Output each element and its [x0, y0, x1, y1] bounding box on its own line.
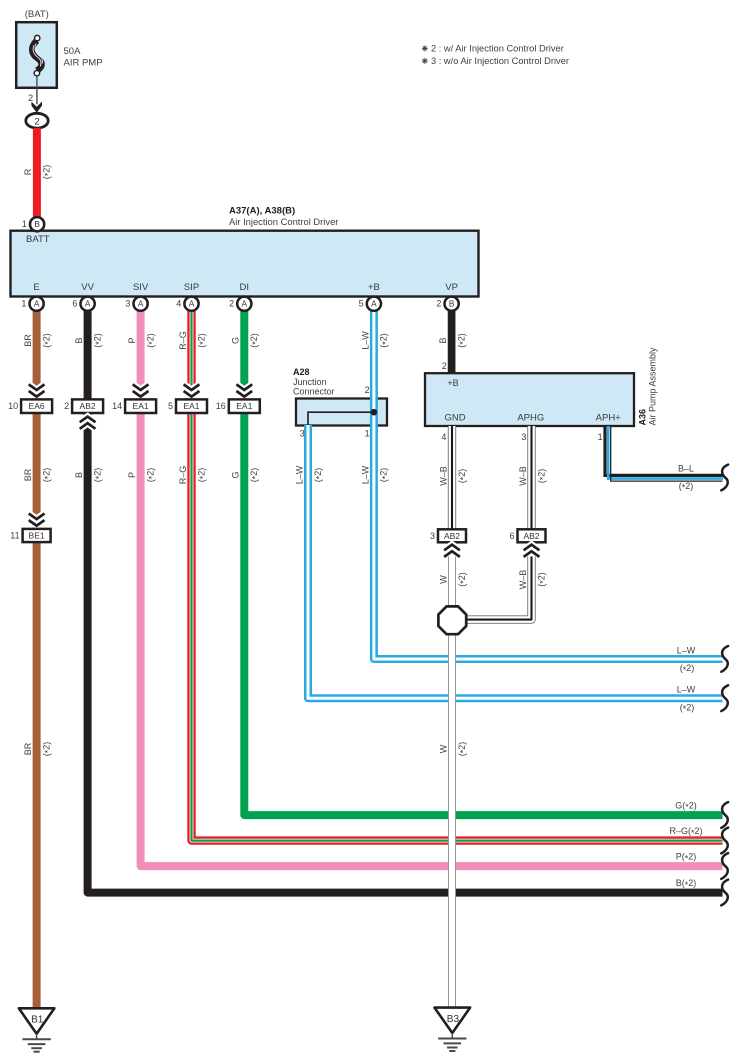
- wire break G: [721, 802, 728, 828]
- svg-text:1: 1: [365, 429, 370, 439]
- svg-text:2: 2: [34, 116, 39, 127]
- svg-text:(*2): (*2): [379, 333, 391, 348]
- svg-text:L–W: L–W: [360, 465, 370, 484]
- note *2 w/ Air Injection Control Driver: [422, 45, 428, 51]
- svg-text:BR: BR: [23, 468, 33, 481]
- pin 2 A (DI): [237, 297, 251, 311]
- svg-text:(*2): (*2): [680, 663, 695, 675]
- fuse 50A AIR PMP: [16, 22, 57, 88]
- svg-text:(*2): (*2): [92, 468, 104, 483]
- svg-text:2: 2: [64, 401, 69, 411]
- svg-text:(*2): (*2): [41, 165, 53, 180]
- svg-text:VV: VV: [81, 282, 94, 293]
- svg-text:EA1: EA1: [133, 401, 149, 411]
- svg-text:(*2): (*2): [145, 468, 157, 483]
- svg-text:2: 2: [28, 93, 33, 103]
- svg-text:2 : w/ Air Injection Control D: 2 : w/ Air Injection Control Driver: [431, 43, 564, 53]
- ground B3: [435, 1008, 471, 1033]
- svg-text:BE1: BE1: [29, 531, 45, 541]
- svg-text:R–G: R–G: [178, 466, 188, 485]
- svg-text:W: W: [438, 575, 448, 584]
- svg-text:B–L: B–L: [678, 463, 694, 473]
- wire R-G: [192, 311, 723, 841]
- connector 2 AB2: [72, 399, 103, 413]
- svg-text:+B: +B: [447, 378, 458, 388]
- connector 6 AB2: [518, 529, 546, 542]
- svg-text:AIR PMP: AIR PMP: [64, 58, 103, 69]
- svg-text:3: 3: [125, 298, 130, 308]
- svg-text:A: A: [34, 299, 40, 309]
- wire break L-W lower: [721, 685, 728, 711]
- svg-text:(*2): (*2): [249, 333, 261, 348]
- svg-text:(*2): (*2): [196, 468, 208, 483]
- svg-text:Connector: Connector: [293, 386, 335, 396]
- svg-text:11: 11: [10, 531, 19, 541]
- connector 11 BE1: [23, 529, 51, 542]
- wire break L-W upper: [721, 646, 728, 672]
- svg-text:B: B: [34, 219, 40, 229]
- svg-text:2: 2: [436, 298, 441, 308]
- air pump assembly A36 box: [425, 373, 634, 426]
- arrow out of 3 AB2: [444, 545, 460, 557]
- svg-text:BATT: BATT: [26, 234, 50, 245]
- connector 16 EA1: [229, 399, 260, 413]
- connector 14 EA1: [125, 399, 156, 413]
- svg-text:(*2): (*2): [249, 468, 261, 483]
- svg-text:16: 16: [216, 401, 226, 411]
- ECU A37/A38 Air Injection Control Driver box: [11, 231, 479, 297]
- connector 10 EA6: [21, 399, 52, 413]
- svg-text:(*2): (*2): [680, 703, 695, 715]
- svg-text:(*2): (*2): [457, 469, 469, 484]
- wire break R-G: [721, 828, 728, 854]
- svg-text:B1: B1: [31, 1015, 44, 1026]
- svg-text:14: 14: [112, 401, 122, 411]
- svg-text:4: 4: [441, 432, 446, 442]
- svg-text:(*2): (*2): [41, 333, 53, 348]
- svg-text:BR: BR: [23, 334, 33, 347]
- pin 5 A (+B): [367, 297, 381, 311]
- svg-text:6: 6: [72, 298, 77, 308]
- wire break B-L: [721, 465, 728, 491]
- svg-text:W–B: W–B: [518, 570, 528, 590]
- arrow into EA1 (14): [133, 384, 149, 396]
- splice octagon: [438, 606, 466, 634]
- svg-text:E: E: [33, 282, 39, 293]
- svg-text:10: 10: [8, 401, 18, 411]
- svg-text:P(*2): P(*2): [676, 852, 697, 864]
- svg-text:+B: +B: [368, 282, 380, 293]
- svg-text:AB2: AB2: [444, 531, 460, 541]
- svg-text:B: B: [74, 472, 84, 478]
- svg-text:3: 3: [300, 429, 305, 439]
- svg-text:2: 2: [442, 361, 447, 371]
- svg-text:AB2: AB2: [523, 531, 539, 541]
- svg-text:B: B: [438, 337, 448, 343]
- arrow into EA6: [29, 384, 45, 396]
- svg-text:(*2): (*2): [145, 333, 157, 348]
- connector 3 AB2: [438, 529, 466, 542]
- svg-text:P: P: [127, 472, 137, 478]
- wire R: [33, 128, 41, 217]
- svg-text:L–W: L–W: [294, 465, 304, 484]
- svg-text:(*2): (*2): [536, 572, 548, 587]
- svg-text:G(*2): G(*2): [675, 801, 697, 813]
- svg-text:A: A: [371, 299, 377, 309]
- svg-text:(*2): (*2): [92, 333, 104, 348]
- svg-text:A: A: [138, 299, 144, 309]
- svg-text:AB2: AB2: [80, 401, 96, 411]
- svg-text:2: 2: [229, 298, 234, 308]
- svg-text:VP: VP: [445, 282, 458, 293]
- ground B1: [19, 1008, 55, 1033]
- svg-text:1: 1: [598, 432, 603, 442]
- svg-text:(*2): (*2): [41, 742, 53, 757]
- wire B from VV: [88, 311, 723, 893]
- svg-text:A: A: [242, 299, 248, 309]
- svg-text:GND: GND: [444, 412, 465, 423]
- svg-text:(*2): (*2): [379, 468, 391, 483]
- arrow out of AB2: [80, 417, 96, 429]
- svg-text:(*2): (*2): [457, 742, 469, 757]
- wire W below splice: [448, 633, 456, 1008]
- A28 internal wire: [308, 412, 374, 424]
- svg-text:R–G: R–G: [178, 331, 188, 350]
- svg-text:EA6: EA6: [29, 401, 45, 411]
- svg-text:A: A: [189, 299, 195, 309]
- svg-text:B: B: [74, 337, 84, 343]
- note *3 w/o Air Injection Control Driver: [422, 58, 428, 64]
- svg-text:(*2): (*2): [456, 333, 468, 348]
- arrow out of 6 AB2: [524, 545, 540, 557]
- pin 1 B (BATT): [30, 217, 44, 231]
- connector 5 EA1: [176, 399, 207, 413]
- svg-text:5: 5: [359, 298, 364, 308]
- svg-text:W–B: W–B: [518, 466, 528, 486]
- svg-text:(*2): (*2): [679, 481, 694, 493]
- svg-text:L–W: L–W: [360, 331, 370, 350]
- wire fuse to connector 2: [36, 76, 38, 105]
- svg-text:(*2): (*2): [313, 468, 325, 483]
- svg-text:(*2): (*2): [41, 468, 53, 483]
- wire break B: [721, 880, 728, 906]
- wire W-B from splice to 6 AB2: [466, 557, 531, 620]
- svg-text:W–B: W–B: [438, 466, 448, 486]
- svg-text:G: G: [231, 471, 241, 478]
- svg-text:R–G(*2): R–G(*2): [669, 826, 702, 838]
- svg-text:A36: A36: [638, 409, 648, 426]
- pin 3 A (SIV): [134, 297, 148, 311]
- wire L-W from A28 pin 3: [308, 425, 723, 698]
- svg-text:P: P: [127, 337, 137, 343]
- svg-text:(*2): (*2): [196, 333, 208, 348]
- svg-text:2: 2: [365, 385, 370, 395]
- svg-text:1: 1: [21, 298, 26, 308]
- svg-text:Air Injection Control Driver: Air Injection Control Driver: [229, 216, 338, 227]
- svg-text:R: R: [23, 168, 33, 175]
- svg-text:APH+: APH+: [596, 412, 622, 423]
- wire W-B from GND: [448, 426, 456, 529]
- svg-text:W: W: [438, 744, 448, 753]
- svg-text:5: 5: [168, 401, 173, 411]
- svg-text:BR: BR: [23, 742, 33, 755]
- junction connector A28 box: [296, 399, 387, 426]
- wire B from VP: [448, 311, 456, 374]
- svg-text:L–W: L–W: [677, 685, 696, 695]
- svg-text:L–W: L–W: [677, 645, 696, 655]
- wire break P: [721, 853, 728, 879]
- svg-text:SIP: SIP: [184, 282, 199, 293]
- svg-text:6: 6: [509, 531, 514, 541]
- svg-text:A28: A28: [293, 367, 310, 377]
- svg-text:APHG: APHG: [517, 412, 544, 423]
- wire P: [141, 311, 723, 866]
- svg-text:G: G: [231, 337, 241, 344]
- pin 6 A (VV): [81, 297, 95, 311]
- svg-text:(*2): (*2): [536, 469, 548, 484]
- wire L-W from +B through A28: [374, 311, 723, 659]
- svg-text:Air Pump Assembly: Air Pump Assembly: [647, 347, 657, 426]
- svg-text:(*2): (*2): [457, 572, 469, 587]
- svg-text:B(*2): B(*2): [676, 878, 697, 890]
- arrow into EA1 (5): [184, 384, 200, 396]
- svg-text:B: B: [449, 299, 455, 309]
- junction dot: [371, 409, 378, 416]
- svg-text:3: 3: [521, 432, 526, 442]
- svg-text:A: A: [85, 299, 91, 309]
- svg-text:3 : w/o Air Injection Control: 3 : w/o Air Injection Control Driver: [431, 56, 569, 66]
- svg-text:50A: 50A: [64, 46, 82, 57]
- pin 1 A (E): [29, 297, 43, 311]
- svg-text:B3: B3: [447, 1014, 460, 1025]
- pin 4 A (SIP): [184, 297, 198, 311]
- arrow into BE1: [29, 514, 45, 526]
- svg-text:(BAT): (BAT): [25, 9, 49, 20]
- svg-text:SIV: SIV: [133, 282, 149, 293]
- connector 2 (BAT): [26, 113, 48, 128]
- svg-text:3: 3: [430, 531, 435, 541]
- wire W into splice: [448, 557, 456, 609]
- svg-text:DI: DI: [240, 282, 250, 293]
- wire B-L from APH+: [605, 426, 723, 475]
- svg-text:EA1: EA1: [236, 401, 252, 411]
- wire BR: [33, 311, 41, 1009]
- svg-text:1: 1: [22, 219, 27, 229]
- svg-text:EA1: EA1: [183, 401, 199, 411]
- arrow into EA1 (16): [236, 384, 252, 396]
- wire W-B from APHG: [527, 426, 535, 529]
- svg-text:4: 4: [176, 298, 181, 308]
- wire G: [244, 311, 722, 815]
- pin 2 B (VP): [445, 297, 459, 311]
